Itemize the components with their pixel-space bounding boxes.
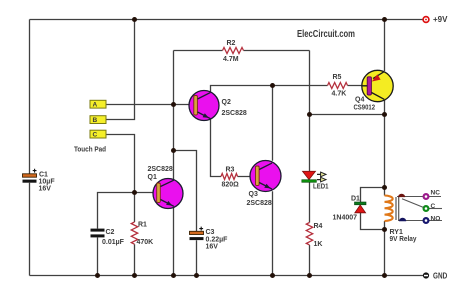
svg-text:1K: 1K [314, 241, 323, 248]
svg-text:0.01µF: 0.01µF [102, 239, 125, 246]
svg-text:C: C [431, 203, 436, 210]
svg-text:R5: R5 [333, 74, 342, 81]
svg-text:R2: R2 [227, 40, 236, 47]
svg-text:16V: 16V [206, 243, 219, 250]
svg-text:+9V: +9V [433, 15, 448, 24]
svg-text:R1: R1 [138, 221, 147, 228]
svg-text:1N4007: 1N4007 [333, 214, 358, 221]
svg-text:R3: R3 [226, 166, 235, 173]
svg-text:NC: NC [431, 189, 441, 196]
svg-text:10µF: 10µF [39, 179, 56, 186]
svg-text:2SC828: 2SC828 [222, 110, 247, 117]
svg-text:C1: C1 [39, 172, 48, 179]
svg-text:Touch Pad: Touch Pad [74, 145, 106, 154]
svg-text:C: C [93, 132, 98, 139]
svg-text:2SC828: 2SC828 [247, 200, 272, 207]
svg-text:CS9012: CS9012 [354, 105, 376, 112]
svg-text:4.7M: 4.7M [223, 56, 239, 63]
svg-text:LED1: LED1 [313, 183, 329, 190]
svg-text:Q3: Q3 [249, 191, 258, 198]
svg-text:Q2: Q2 [222, 99, 231, 106]
svg-text:9V Relay: 9V Relay [390, 236, 417, 243]
svg-text:NO: NO [431, 216, 441, 223]
svg-text:Q1: Q1 [148, 174, 157, 181]
svg-text:RY1: RY1 [390, 229, 403, 236]
svg-text:16V: 16V [39, 186, 52, 193]
svg-text:Q4: Q4 [355, 97, 364, 104]
svg-text:2SC828: 2SC828 [148, 166, 173, 173]
svg-text:B: B [93, 117, 98, 124]
svg-text:0.22µF: 0.22µF [206, 236, 229, 243]
svg-text:GND: GND [433, 271, 447, 280]
svg-text:A: A [93, 102, 98, 109]
svg-text:C2: C2 [106, 229, 115, 236]
svg-text:R4: R4 [314, 223, 323, 230]
svg-text:4.7K: 4.7K [332, 91, 347, 98]
svg-text:ElecCircuit.com: ElecCircuit.com [297, 29, 355, 40]
svg-text:470K: 470K [137, 239, 154, 246]
svg-text:820Ω: 820Ω [222, 182, 240, 189]
svg-text:C3: C3 [206, 229, 215, 236]
svg-text:D1: D1 [351, 195, 360, 202]
